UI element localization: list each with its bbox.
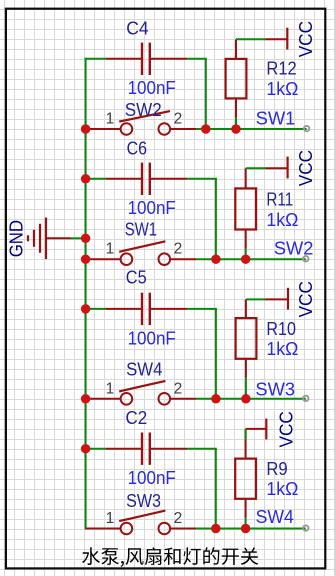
svg-text:1kΩ: 1kΩ (266, 210, 298, 230)
svg-text:R10: R10 (266, 319, 296, 339)
svg-text:100nF: 100nF (128, 468, 176, 488)
svg-text:C2: C2 (126, 408, 148, 428)
svg-text:1: 1 (106, 241, 115, 258)
svg-text:VCC: VCC (276, 411, 296, 447)
svg-text:2: 2 (174, 510, 183, 527)
svg-text:2: 2 (174, 111, 183, 128)
svg-text:100nF: 100nF (128, 328, 176, 348)
svg-text:2: 2 (174, 380, 183, 397)
svg-text:VCC: VCC (296, 150, 316, 186)
svg-text:VCC: VCC (296, 281, 316, 317)
svg-text:1kΩ: 1kΩ (266, 79, 298, 99)
svg-text:SW2: SW2 (274, 239, 314, 259)
svg-text:100nF: 100nF (128, 78, 176, 98)
svg-text:SW3: SW3 (126, 491, 161, 511)
svg-text:C6: C6 (127, 138, 147, 158)
svg-text:1kΩ: 1kΩ (266, 479, 298, 499)
svg-text:GND: GND (7, 220, 27, 257)
svg-text:SW4: SW4 (256, 507, 294, 527)
svg-text:R12: R12 (266, 58, 296, 78)
svg-text:R11: R11 (266, 189, 293, 209)
svg-text:VCC: VCC (296, 21, 316, 57)
svg-text:SW2: SW2 (125, 100, 162, 120)
svg-text:SW1: SW1 (125, 220, 157, 240)
svg-text:1: 1 (106, 380, 115, 397)
svg-text:C4: C4 (126, 19, 148, 39)
svg-text:1: 1 (106, 510, 115, 527)
svg-text:SW3: SW3 (255, 379, 295, 399)
svg-text:2: 2 (174, 241, 183, 258)
svg-text:1kΩ: 1kΩ (266, 339, 298, 359)
svg-text:SW4: SW4 (126, 360, 162, 380)
svg-text:100nF: 100nF (128, 198, 176, 218)
svg-text:C5: C5 (126, 268, 147, 288)
svg-text:R9: R9 (266, 459, 287, 479)
svg-text:1: 1 (106, 111, 115, 128)
svg-text:SW1: SW1 (256, 109, 296, 129)
